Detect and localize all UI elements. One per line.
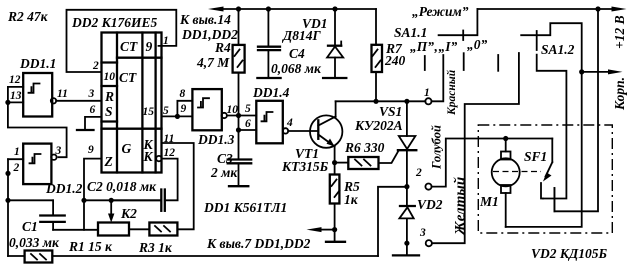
- svg-text:VD2: VD2: [417, 197, 443, 212]
- gate DD1.3 schmitt symbol: [198, 98, 209, 107]
- switch SA1.2 wiper tick: [536, 31, 538, 50]
- node C1-top wire junction dot: [5, 198, 10, 203]
- capacitor C2: [111, 190, 165, 211]
- terminal 2 circle: [425, 184, 431, 190]
- switch SA1.2 contact stub P: [497, 55, 499, 71]
- svg-text:6: 6: [245, 118, 251, 130]
- gate DD1.1 output inversion circle pin 11: [51, 98, 56, 103]
- svg-text:К выв.7 DD1,DD2: К выв.7 DD1,DD2: [206, 236, 311, 251]
- node R1 wiper junction dot: [109, 198, 114, 203]
- wire DD1.1 output to DD2 pin 3: [56, 100, 101, 102]
- svg-text:М1: М1: [479, 194, 499, 209]
- node R7 bottom junction dot: [373, 99, 378, 104]
- gate DD1.4 output inversion circle pin 4: [283, 128, 288, 133]
- capacitor C4: [258, 9, 280, 77]
- resistor R4 body: [233, 9, 245, 116]
- capacitor C1: [40, 200, 64, 230]
- svg-text:R3 1к: R3 1к: [138, 240, 173, 255]
- wire VT1 collector up to anode line: [335, 101, 337, 117]
- wire left vertical DD1.2 inputs down to bottom rail: [7, 159, 9, 256]
- svg-text:12: 12: [164, 147, 176, 159]
- enclosure dash-dot border: [478, 125, 612, 233]
- top rail arrow to pin 14: [208, 7, 224, 12]
- gate DD1.1 body: [23, 73, 52, 117]
- svg-text:С4: С4: [289, 46, 305, 61]
- svg-text:DD1.3: DD1.3: [197, 132, 235, 147]
- wire R1 to R3: [129, 228, 149, 230]
- zener diode VD1: [327, 9, 343, 77]
- svg-text:Корп.: Корп.: [612, 77, 627, 111]
- switch SA1.2 contact to SF1: [537, 55, 567, 199]
- wire +12V down to SF1 maze: [554, 9, 598, 211]
- switch SA1.1 contact P: [424, 56, 426, 70]
- svg-text:R6 330: R6 330: [344, 140, 385, 155]
- switch SF1 moving contact with arrow: [543, 139, 552, 182]
- svg-text:S: S: [105, 104, 113, 119]
- svg-text:5: 5: [163, 105, 169, 117]
- gate DD1.4 body: [256, 101, 283, 144]
- gate DD1.2 schmitt symbol: [30, 154, 41, 163]
- switch SF1 fixed contact hook: [541, 183, 543, 199]
- svg-text:13: 13: [10, 90, 22, 102]
- svg-text:К: К: [143, 149, 154, 164]
- node Korp junction dot: [579, 69, 584, 74]
- wire DD1.3 output to DD1.4 input 5: [227, 115, 256, 117]
- ground bar at VD2: [393, 254, 419, 256]
- wire to pin 7 with arrow: [307, 227, 335, 232]
- gate DD1.2 input stub pin1: [8, 158, 23, 160]
- svg-text:R: R: [104, 89, 114, 104]
- svg-text:6: 6: [90, 104, 96, 116]
- gate DD1.3 input stub pin 8: [177, 101, 192, 117]
- thyristor VS1: [379, 101, 417, 186]
- svg-text:3: 3: [419, 227, 426, 239]
- wire R4 node down to pin6 node: [238, 116, 240, 131]
- gate DD1.1 input stubs: [8, 87, 23, 103]
- svg-text:R2 47к: R2 47к: [7, 9, 49, 24]
- resistor R6 body: [335, 157, 379, 169]
- node VS1 anode junction dot: [404, 99, 409, 104]
- wire timing node to C2: [84, 199, 160, 201]
- svg-text:0,068 мк: 0,068 мк: [271, 61, 322, 76]
- variable resistor R1 wiper arrow K2: [108, 200, 114, 222]
- svg-text:1: 1: [14, 146, 20, 158]
- svg-text:2: 2: [415, 167, 422, 179]
- svg-text:Желтый: Желтый: [453, 177, 469, 236]
- svg-text:Красный: Красный: [445, 69, 458, 116]
- svg-text:9: 9: [146, 39, 153, 54]
- node rail VD1 dot: [332, 6, 337, 11]
- svg-text:3: 3: [55, 145, 62, 157]
- gate DD1.2 output inversion circle pin 3: [51, 155, 56, 160]
- node R4 junction dot: [236, 113, 241, 118]
- svg-text:„П”‚„I”: „П”‚„I”: [410, 39, 458, 54]
- wire DD1.1 inputs to DD1.2 output: [8, 102, 67, 157]
- motor M1: [492, 139, 520, 227]
- svg-text:DD2 К176ИЕ5: DD2 К176ИЕ5: [71, 15, 158, 30]
- transistor VT1: [310, 115, 342, 147]
- svg-text:11: 11: [57, 88, 68, 100]
- svg-text:К2: К2: [120, 206, 137, 221]
- svg-text:4: 4: [286, 117, 293, 129]
- ground bar at VD1: [323, 77, 346, 79]
- svg-text:„0”: „0”: [467, 37, 488, 52]
- top rail right segment with +12V arrow: [477, 7, 626, 12]
- wire terminal3 yellow wire to SA1.2 contact: [432, 53, 519, 243]
- svg-text:К выв.14: К выв.14: [179, 12, 231, 27]
- switch SA1.1 bar and riser to rail: [439, 9, 478, 35]
- svg-text:3: 3: [88, 88, 95, 100]
- gate DD1.3 output inversion circle pin 10: [222, 113, 227, 118]
- svg-text:2 мк: 2 мк: [210, 165, 238, 180]
- svg-text:9: 9: [88, 144, 94, 156]
- svg-text:4,7 М: 4,7 М: [196, 55, 230, 70]
- svg-text:„Режим”: „Режим”: [412, 4, 469, 19]
- node rail R4 dot: [236, 6, 241, 11]
- svg-text:С2 0,018 мк: С2 0,018 мк: [87, 179, 157, 194]
- switch SA1.1 wiper tick: [462, 31, 464, 41]
- resistor R5 body: [330, 175, 340, 241]
- wire terminal2 blue wire to motor: [432, 139, 553, 187]
- node DD1.1 inputs junction dot: [5, 100, 10, 105]
- svg-text:0,033 мк: 0,033 мк: [9, 235, 60, 250]
- terminal 1 circle: [425, 98, 431, 104]
- Korp line with arrow: [582, 69, 623, 74]
- svg-text:1: 1: [163, 35, 169, 47]
- switch SF1 fixed contact stub to +12V: [553, 188, 555, 211]
- wire C2 to DD2 pin 12: [162, 159, 178, 201]
- svg-text:2: 2: [13, 162, 20, 174]
- wire C1 bottom to R1 left: [53, 229, 98, 231]
- bottom rail to riser: [52, 255, 378, 257]
- mechanical link dashed line: [493, 171, 541, 173]
- svg-text:G: G: [122, 141, 132, 156]
- svg-text:5: 5: [245, 103, 251, 115]
- svg-text:SA1.1: SA1.1: [394, 25, 427, 40]
- diode VD2: [399, 187, 414, 255]
- node DD1.2 pin2 junction dot: [5, 171, 10, 176]
- svg-text:VS1: VS1: [379, 104, 402, 119]
- wire DD2 pin9 Z down to timing node: [84, 159, 102, 230]
- svg-text:DD1.4: DD1.4: [252, 85, 290, 100]
- svg-text:DD1 К561ТЛ1: DD1 К561ТЛ1: [203, 200, 287, 215]
- wire pin1-to-pin2 loop around DD2 label: [67, 10, 177, 72]
- svg-text:SF1: SF1: [524, 149, 547, 164]
- terminal 3 circle: [426, 240, 432, 246]
- svg-text:КУ202А: КУ202А: [354, 118, 403, 133]
- node rail +12V junction dot: [595, 6, 600, 11]
- svg-text:КТ315Б: КТ315Б: [281, 159, 329, 174]
- resistor R2 body: [25, 251, 53, 263]
- wire collector line to thyristor node: [336, 100, 426, 102]
- node terminal3 junction dot: [404, 241, 409, 246]
- node VS1 cathode junction dot: [404, 184, 409, 189]
- svg-text:12: 12: [9, 74, 21, 86]
- wire VT1 emitter down: [334, 146, 336, 175]
- svg-text:+12 В: +12 В: [612, 15, 627, 49]
- svg-text:1: 1: [424, 87, 430, 99]
- svg-text:240: 240: [384, 53, 406, 68]
- svg-text:8: 8: [180, 88, 186, 100]
- resistor R7 body: [372, 9, 383, 101]
- node C3 junction dot: [236, 127, 241, 132]
- gate DD1.3 body: [192, 89, 221, 130]
- node emitter R6 junction dot: [332, 160, 337, 165]
- ground symbol at DD2 pin 6: [77, 117, 102, 130]
- wire DD2 pin5 to DD1.3 inputs: [162, 115, 193, 117]
- node timing junction dot: [81, 198, 86, 203]
- svg-text:R4: R4: [214, 40, 231, 55]
- svg-text:VD2 КД105Б: VD2 КД105Б: [531, 246, 608, 261]
- wire C1 top to DD1.2 inputs: [8, 199, 53, 201]
- top rail left segment: [221, 8, 376, 10]
- bottom rail left segment: [8, 255, 25, 257]
- gate DD1.1 schmitt symbol: [29, 84, 40, 93]
- ground bar at C4: [257, 77, 280, 79]
- svg-text:Z: Z: [104, 154, 113, 169]
- gate DD1.4 schmitt symbol: [262, 112, 273, 121]
- node rail C4 dot: [266, 6, 271, 11]
- svg-text:2: 2: [92, 60, 99, 72]
- wire terminal1 to SA1.1 contact I (red wire): [432, 55, 444, 101]
- svg-text:15: 15: [143, 106, 155, 118]
- wire bottom rail riser to cathode node: [378, 187, 404, 256]
- wire Korp down to motor minus: [506, 72, 582, 227]
- resistor R3 body: [149, 223, 177, 236]
- capacitor C3: [228, 130, 252, 185]
- svg-text:Д814Г: Д814Г: [281, 28, 321, 43]
- DD2 pin 12 inversion circle: [156, 156, 161, 161]
- svg-text:SA1.2: SA1.2: [541, 42, 575, 57]
- ground bar at R5: [326, 241, 345, 243]
- svg-text:С1: С1: [22, 219, 38, 234]
- node motor top junction dot: [503, 136, 508, 141]
- node R5 bottom junction dot: [332, 227, 337, 232]
- svg-text:9: 9: [181, 103, 187, 115]
- svg-text:Голубой: Голубой: [430, 125, 444, 170]
- svg-text:СТ: СТ: [120, 39, 138, 54]
- svg-text:10: 10: [104, 71, 116, 83]
- svg-text:1к: 1к: [344, 192, 359, 207]
- ground bar at C3: [229, 185, 248, 187]
- node DD1.3 input junction dot: [175, 114, 180, 119]
- gate DD1.2 body: [23, 144, 51, 185]
- chip DD2 body: [102, 33, 162, 173]
- svg-text:R1 15 к: R1 15 к: [68, 239, 113, 254]
- switch SA1.1 contact 0: [463, 53, 465, 70]
- wire DD1.4 output to VT1 base: [288, 130, 318, 132]
- wire R3 to DD2 pin 11: [162, 143, 194, 229]
- switch SA1.2 bar and riser to Korp: [521, 23, 582, 72]
- svg-text:DD1.1: DD1.1: [19, 56, 56, 71]
- svg-text:СТ: СТ: [119, 70, 137, 85]
- wire to DD1.4 input 6: [239, 129, 257, 131]
- resistor R1 body: [98, 223, 129, 236]
